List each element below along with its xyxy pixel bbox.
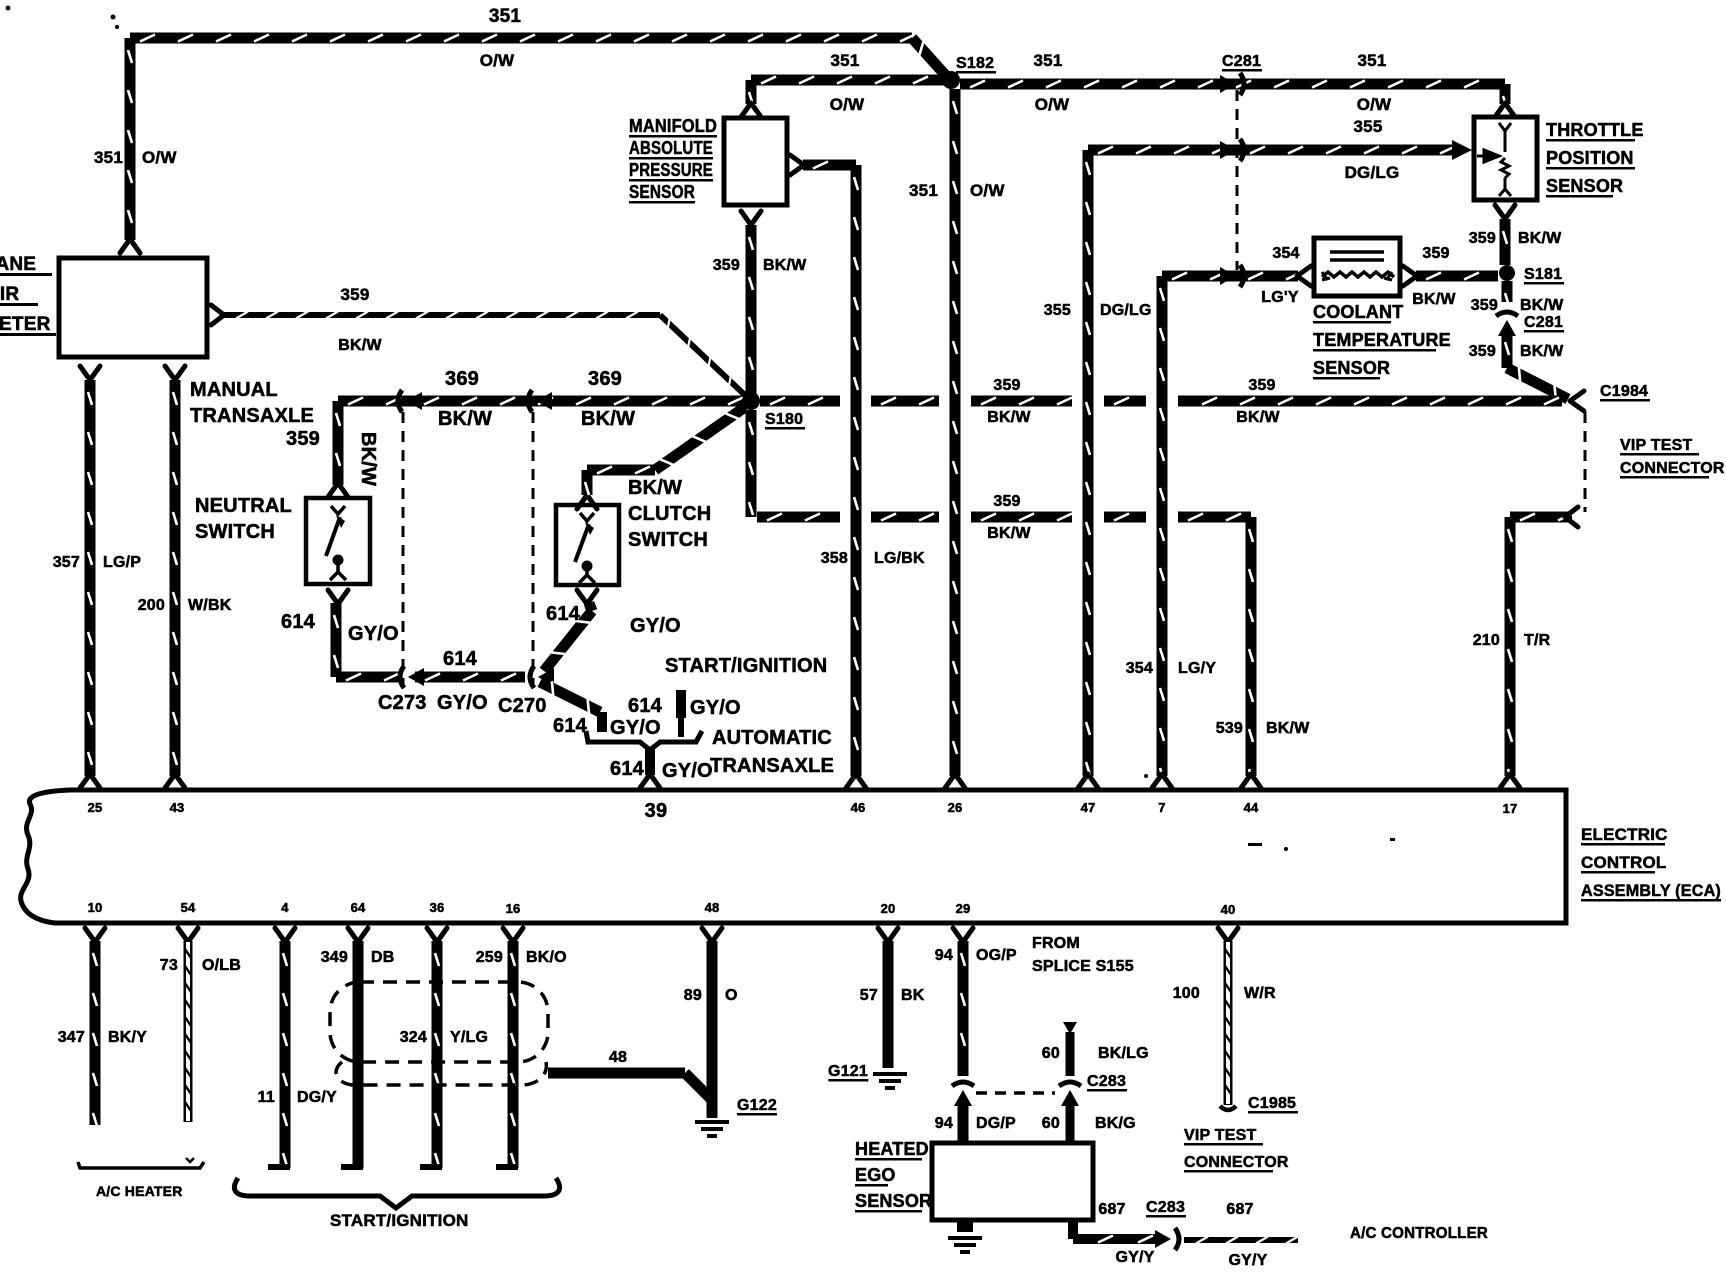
wire 259 BK/O from ECA pin 16 <box>503 928 523 942</box>
svg-text:4: 4 <box>281 900 289 915</box>
wire 48 from harness to ground G122 <box>548 1068 685 1079</box>
svg-text:20: 20 <box>881 901 896 916</box>
svg-text:SPLICE S155: SPLICE S155 <box>1032 958 1134 975</box>
wire 94 OG/P from ECA pin 29 to C283 <box>953 928 973 942</box>
neutral switch internal symbol <box>326 506 346 580</box>
svg-text:T/R: T/R <box>1524 632 1551 649</box>
svg-text:614: 614 <box>610 758 645 780</box>
svg-text:SENSOR: SENSOR <box>1313 358 1390 378</box>
svg-text:94: 94 <box>935 947 953 964</box>
svg-text:GY/O: GY/O <box>690 697 741 719</box>
wire 100 W/R from ECA pin 40 to C1985 <box>1218 928 1238 942</box>
svg-text:BK/Y: BK/Y <box>108 1029 147 1046</box>
svg-text:BK/W: BK/W <box>1520 297 1564 314</box>
svg-text:46: 46 <box>851 800 866 815</box>
dashed connector line C273 <box>402 412 405 688</box>
wire 200 W/BK vane meter bottom to ECA pin 43 <box>165 366 185 380</box>
wire 359 BK/W TPS bottom through S181 and C281 to C1984 <box>1495 205 1515 219</box>
wire 347 BK/Y from ECA pin 10 <box>85 928 105 942</box>
svg-text:NEUTRAL: NEUTRAL <box>195 495 292 517</box>
svg-text:369: 369 <box>445 368 479 390</box>
connector C283 on 60 wire <box>1061 1090 1079 1106</box>
clutch switch internal symbol <box>575 513 595 583</box>
connector C270 on 614 wire <box>538 668 554 686</box>
svg-text:OG/P: OG/P <box>976 947 1017 964</box>
svg-text:355: 355 <box>1044 302 1071 319</box>
start/ignition curly brace <box>234 1178 559 1208</box>
svg-text:614: 614 <box>281 611 316 633</box>
connector C1985 fork <box>1220 1106 1236 1110</box>
wire 357 LG/P vane meter bottom to ECA pin 25 <box>80 366 100 380</box>
wire 73 O/LB from ECA pin 54 (white wire) <box>178 928 198 942</box>
wire 60 BK/LG stub to C283 <box>1063 1022 1077 1034</box>
svg-text:358: 358 <box>821 550 848 567</box>
wire 324 Y/LG from ECA pin 36 <box>427 928 447 942</box>
svg-text:THROTTLE: THROTTLE <box>1546 120 1644 140</box>
svg-text:GY/O: GY/O <box>437 692 488 714</box>
svg-text:G121: G121 <box>828 1063 868 1080</box>
svg-text:57: 57 <box>860 987 878 1004</box>
svg-text:TEMPERATURE: TEMPERATURE <box>1313 330 1451 350</box>
svg-text:VIP TEST: VIP TEST <box>1184 1127 1256 1144</box>
coolant sensor internal symbol <box>1322 252 1394 280</box>
svg-text:CONNECTOR: CONNECTOR <box>1620 460 1725 477</box>
svg-text:351: 351 <box>831 51 860 70</box>
wire 351 O/W MAP sensor top to S182 <box>746 80 757 104</box>
wire 89 O from ECA pin 48 to ground G122 <box>702 928 722 942</box>
svg-text:CLUTCH: CLUTCH <box>628 503 711 525</box>
svg-text:O/W: O/W <box>142 148 177 167</box>
svg-text:LG'Y: LG'Y <box>1261 289 1299 306</box>
svg-text:BK/W: BK/W <box>581 408 635 430</box>
connector C273 on 369 wire <box>406 392 422 410</box>
wire 614 GY/O clutch switch bottom zigzag to C270 junction <box>577 590 597 604</box>
wire 687 GY/Y right of C283 <box>1184 1237 1298 1243</box>
wire 351 O/W from S182 down to ECA pin 26 <box>950 89 961 776</box>
splice S180 <box>742 392 760 410</box>
svg-text:BK/W: BK/W <box>1518 230 1562 247</box>
svg-text:O/W: O/W <box>1357 95 1392 114</box>
wire 614 GY/O from C270 down to stub (manual side) <box>540 682 600 712</box>
throttle position sensor box <box>1474 117 1537 200</box>
svg-text:LG/BK: LG/BK <box>874 550 925 567</box>
svg-text:A/C CONTROLLER: A/C CONTROLLER <box>1350 1225 1488 1242</box>
svg-text:351: 351 <box>1358 51 1387 70</box>
ground G121 <box>873 1074 907 1088</box>
svg-text:C281: C281 <box>1524 314 1563 331</box>
svg-text:40: 40 <box>1221 902 1236 917</box>
svg-text:359: 359 <box>286 428 320 450</box>
svg-text:BK/W: BK/W <box>1412 291 1456 308</box>
svg-text:S182: S182 <box>956 55 994 72</box>
svg-text:COOLANT: COOLANT <box>1313 302 1403 322</box>
svg-text:W/BK: W/BK <box>188 597 232 614</box>
svg-text:39: 39 <box>645 800 668 822</box>
svg-text:O/LB: O/LB <box>202 957 241 974</box>
A/C heater bracket <box>78 1162 204 1168</box>
svg-text:200: 200 <box>138 597 165 614</box>
svg-text:351: 351 <box>489 6 522 27</box>
wire 369 BK/W from corner to splice S180 <box>333 401 344 485</box>
neutral switch box <box>306 498 370 584</box>
wire 60 BK/G from C283 to heated EGO sensor <box>1066 1100 1075 1143</box>
svg-text:C281: C281 <box>1222 53 1261 70</box>
svg-text:614: 614 <box>443 648 478 670</box>
svg-text:START/IGNITION: START/IGNITION <box>665 655 827 677</box>
svg-text:SENSOR: SENSOR <box>629 182 695 202</box>
svg-text:359: 359 <box>993 493 1020 510</box>
svg-text:60: 60 <box>1042 1115 1060 1132</box>
heated EGO sensor box <box>932 1143 1093 1220</box>
svg-text:359: 359 <box>1422 245 1449 262</box>
svg-text:C283: C283 <box>1146 1199 1185 1216</box>
svg-text:BK/W: BK/W <box>987 409 1031 426</box>
wire 57 BK from ECA pin 20 to ground G121 <box>878 928 898 942</box>
svg-text:355: 355 <box>1354 117 1383 136</box>
wire 614 GY/O bracket stem to ECA pin 39 <box>645 748 655 775</box>
svg-text:25: 25 <box>88 800 103 815</box>
electric control assembly ECA box with broken left edge <box>21 790 1566 923</box>
dashed connector line C270 <box>532 412 535 688</box>
svg-text:369: 369 <box>588 368 622 390</box>
svg-text:359: 359 <box>993 377 1020 394</box>
svg-text:351: 351 <box>909 181 938 200</box>
svg-text:359: 359 <box>341 285 370 304</box>
svg-text:BK: BK <box>901 987 925 1004</box>
wire 351 O/W S182 to C281 to throttle position sensor <box>960 79 1505 90</box>
svg-text:O: O <box>725 987 738 1004</box>
C281 dashed connector line (top) <box>1236 90 1239 270</box>
svg-text:43: 43 <box>170 800 185 815</box>
wire 351 O/W from vane air meter to splice S182 (top run) <box>125 38 136 240</box>
svg-text:CONNECTOR: CONNECTOR <box>1184 1154 1289 1171</box>
wire 349 DB from ECA pin 64 <box>348 928 368 942</box>
svg-text:614: 614 <box>628 695 663 717</box>
svg-text:94: 94 <box>935 1115 953 1132</box>
svg-text:16: 16 <box>506 901 521 916</box>
svg-text:S181: S181 <box>1524 266 1562 283</box>
clutch switch box <box>556 505 619 585</box>
svg-text:BK/W: BK/W <box>438 408 492 430</box>
dashed line between C283 connectors <box>976 1091 1055 1095</box>
svg-text:359: 359 <box>1248 377 1275 394</box>
wire 94 DG/P from C283 to heated EGO sensor <box>958 1100 969 1143</box>
svg-text:LG/P: LG/P <box>103 554 141 571</box>
svg-text:687: 687 <box>1098 1201 1125 1218</box>
svg-text:BK/G: BK/G <box>1095 1115 1136 1132</box>
svg-text:AIR: AIR <box>0 284 19 305</box>
svg-text:DB: DB <box>371 949 395 966</box>
svg-text:G122: G122 <box>737 1097 777 1114</box>
connector C281 on 354 wire <box>1220 267 1236 285</box>
connector C281 on 351 wire <box>1220 75 1236 93</box>
svg-text:89: 89 <box>684 987 702 1004</box>
svg-text:FROM: FROM <box>1032 935 1080 952</box>
svg-text:ABSOLUTE: ABSOLUTE <box>629 138 713 158</box>
wire 355 DG/LG from ECA pin 47 up and right to TPS <box>1083 150 1094 776</box>
wire 11 DG/Y from ECA pin 4 <box>275 928 295 942</box>
svg-text:359: 359 <box>1469 230 1496 247</box>
TPS internal potentiometer symbol <box>1477 123 1511 196</box>
connector C281 on 355 wire <box>1220 141 1236 159</box>
svg-text:S180: S180 <box>765 411 803 428</box>
svg-text:C273: C273 <box>378 692 427 714</box>
svg-text:AUTOMATIC: AUTOMATIC <box>712 727 832 749</box>
svg-text:ELECTRIC: ELECTRIC <box>1581 825 1668 844</box>
svg-text:METER: METER <box>0 314 51 335</box>
coolant temperature sensor box <box>1314 238 1400 296</box>
svg-text:START/IGNITION: START/IGNITION <box>330 1211 468 1230</box>
svg-text:7: 7 <box>1158 800 1165 815</box>
svg-text:O/W: O/W <box>1035 95 1070 114</box>
svg-text:349: 349 <box>321 949 348 966</box>
svg-text:359: 359 <box>713 257 740 274</box>
svg-text:C1985: C1985 <box>1248 1095 1296 1112</box>
svg-text:O/W: O/W <box>830 95 865 114</box>
svg-text:O/W: O/W <box>970 181 1005 200</box>
connector C283 on 687 wire <box>1155 1230 1171 1248</box>
svg-text:TRANSAXLE: TRANSAXLE <box>710 755 834 777</box>
wire 210 T/R from ECA pin 17 up to VIP test connector C1984 <box>1505 517 1516 776</box>
svg-text:47: 47 <box>1081 800 1096 815</box>
svg-text:GY/Y: GY/Y <box>1115 1249 1154 1266</box>
svg-text:324: 324 <box>400 1029 427 1046</box>
svg-text:SENSOR: SENSOR <box>1546 176 1623 196</box>
manifold absolute pressure sensor box <box>724 118 787 205</box>
svg-text:SWITCH: SWITCH <box>195 521 275 543</box>
dashed line below C1984 <box>1584 412 1587 512</box>
svg-text:614: 614 <box>546 603 581 625</box>
svg-text:10: 10 <box>88 900 103 915</box>
svg-text:EGO: EGO <box>855 1165 896 1185</box>
wire 359 BK/W from S180 right to C1984 (long run) <box>760 396 840 407</box>
svg-text:17: 17 <box>1503 801 1518 816</box>
svg-text:GY/Y: GY/Y <box>1228 1252 1267 1269</box>
svg-text:BK/W: BK/W <box>338 337 382 354</box>
svg-text:36: 36 <box>430 900 445 915</box>
splice S182 <box>942 71 960 89</box>
svg-text:210: 210 <box>1473 632 1500 649</box>
svg-text:Y/LG: Y/LG <box>450 1029 488 1046</box>
svg-text:48: 48 <box>609 1049 627 1066</box>
svg-text:O/W: O/W <box>480 51 515 70</box>
svg-text:11: 11 <box>258 1089 275 1106</box>
wire 614 GY/O neutral switch to C273 <box>328 590 348 604</box>
svg-text:GY/O: GY/O <box>610 717 661 739</box>
svg-text:73: 73 <box>160 957 178 974</box>
connector C1984 fork <box>1570 391 1584 411</box>
wire stub 614 automatic transaxle (right stub) <box>676 690 686 718</box>
svg-text:44: 44 <box>1244 800 1259 815</box>
automatic transaxle bracket <box>586 731 702 750</box>
svg-text:MANIFOLD: MANIFOLD <box>629 116 717 136</box>
svg-text:GY/O: GY/O <box>630 615 681 637</box>
wire 359 BK/W from S180 down then right to ECA pin 44 (539 BK/W) <box>746 410 757 517</box>
svg-text:DG/Y: DG/Y <box>297 1089 337 1106</box>
svg-text:MANUAL: MANUAL <box>190 379 278 401</box>
wire 354 LG/Y from ECA pin 7 up to coolant temperature sensor <box>1157 276 1168 776</box>
svg-text:C283: C283 <box>1087 1073 1126 1090</box>
svg-text:POSITION: POSITION <box>1546 148 1634 168</box>
svg-text:48: 48 <box>705 900 720 915</box>
EGO sensor ground <box>957 1220 973 1232</box>
svg-text:TRANSAXLE: TRANSAXLE <box>190 405 314 427</box>
connector C281 on 359 vertical <box>1498 320 1516 336</box>
svg-text:CONTROL: CONTROL <box>1581 853 1666 872</box>
svg-text:687: 687 <box>1226 1201 1253 1218</box>
svg-text:259: 259 <box>476 949 503 966</box>
svg-text:BK/W: BK/W <box>628 477 682 499</box>
svg-text:BK/W: BK/W <box>1266 720 1310 737</box>
svg-text:539: 539 <box>1216 720 1243 737</box>
svg-text:BK/W: BK/W <box>987 525 1031 542</box>
svg-text:354: 354 <box>1272 245 1299 262</box>
svg-text:SENSOR: SENSOR <box>855 1191 932 1211</box>
svg-text:W/R: W/R <box>1244 985 1276 1002</box>
svg-text:VANE: VANE <box>0 254 36 275</box>
fork into coolant sensor left <box>1297 266 1311 286</box>
svg-text:BK/W: BK/W <box>1236 409 1280 426</box>
svg-text:BK/LG: BK/LG <box>1098 1045 1149 1062</box>
fork into vane air meter top <box>120 239 140 253</box>
svg-text:64: 64 <box>351 900 366 915</box>
svg-text:347: 347 <box>58 1029 85 1046</box>
svg-text:DG/LG: DG/LG <box>1100 302 1152 319</box>
svg-text:29: 29 <box>956 901 971 916</box>
svg-text:614: 614 <box>553 715 588 737</box>
wire 614 GY/O between C273 and C270 <box>415 672 525 683</box>
svg-text:C270: C270 <box>498 695 547 717</box>
ground G122 <box>695 1122 729 1136</box>
svg-text:ASSEMBLY (ECA): ASSEMBLY (ECA) <box>1581 881 1721 900</box>
wire 359 BK/W MAP sensor bottom to splice S180 <box>741 211 761 225</box>
svg-text:54: 54 <box>181 900 196 915</box>
svg-text:C1984: C1984 <box>1600 383 1648 400</box>
dashed harness capsule around start/ignition wires <box>330 982 548 1062</box>
fork into TPS top <box>1495 103 1515 117</box>
svg-text:BK/W: BK/W <box>1520 343 1564 360</box>
svg-text:VIP TEST: VIP TEST <box>1620 437 1692 454</box>
connector C270 on 369 wire <box>536 392 552 410</box>
svg-text:PRESSURE: PRESSURE <box>629 160 713 180</box>
svg-text:DG/P: DG/P <box>976 1115 1016 1132</box>
svg-text:351: 351 <box>94 148 123 167</box>
svg-text:357: 357 <box>53 554 80 571</box>
svg-text:60: 60 <box>1042 1045 1060 1062</box>
connector C273 on 614 wire <box>408 668 424 686</box>
wire 687 GY/Y from EGO sensor to A/C controller <box>1068 1218 1078 1239</box>
svg-text:SWITCH: SWITCH <box>628 529 708 551</box>
svg-text:DG/LG: DG/LG <box>1345 163 1400 182</box>
svg-text:LG/Y: LG/Y <box>1178 660 1216 677</box>
svg-text:HEATED: HEATED <box>855 1139 929 1159</box>
svg-text:GY/O: GY/O <box>662 760 713 782</box>
connector C283 on 94 wire <box>954 1090 972 1106</box>
svg-text:100: 100 <box>1173 985 1200 1002</box>
svg-text:A/C HEATER: A/C HEATER <box>96 1183 183 1199</box>
svg-text:359: 359 <box>1471 297 1498 314</box>
svg-text:BK/W: BK/W <box>763 257 807 274</box>
vane air meter box <box>59 258 207 357</box>
svg-text:359: 359 <box>1469 343 1496 360</box>
svg-text:351: 351 <box>1034 51 1063 70</box>
svg-text:GY/O: GY/O <box>348 623 399 645</box>
wire BK/W clutch switch top to S180 <box>577 495 597 509</box>
svg-text:354: 354 <box>1126 660 1153 677</box>
svg-text:BK/O: BK/O <box>526 949 567 966</box>
wire 358 LG/BK from MAP sensor right side down to ECA pin 46 <box>790 155 804 175</box>
splice S181 <box>1499 265 1515 281</box>
svg-text:26: 26 <box>948 800 963 815</box>
wire 359 BK/W vane meter to S180 (thin hatched) <box>211 305 224 325</box>
svg-text:BK/W: BK/W <box>357 432 379 486</box>
wire 359 BK/W coolant sensor right to splice S181 <box>1403 266 1417 286</box>
